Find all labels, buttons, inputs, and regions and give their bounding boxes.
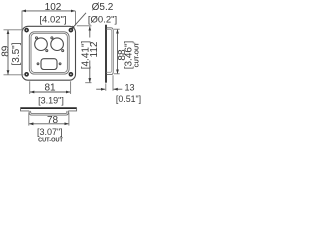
bottom section view flange face bbox=[20, 107, 77, 109]
dim 13 left arrow bbox=[96, 88, 105, 90]
corner hole top-left bbox=[25, 29, 28, 32]
svg-text:[3.46"]: [3.46"] bbox=[123, 40, 134, 69]
corner hole bottom-right bbox=[69, 73, 72, 76]
bottom view dish inner wall bbox=[31, 111, 67, 114]
svg-text:13: 13 bbox=[124, 83, 134, 93]
recessed dish inner edge bbox=[31, 33, 67, 72]
extension line left of 81 bbox=[29, 81, 31, 94]
corner hole bottom-left bbox=[25, 73, 28, 76]
svg-text:CUT-OUT: CUT-OUT bbox=[38, 138, 63, 144]
recessed dish outer edge bbox=[29, 32, 69, 74]
svg-text:Ø5.2: Ø5.2 bbox=[92, 2, 114, 13]
corner hole top-right bbox=[69, 29, 72, 32]
extension line left of 102 bbox=[21, 11, 23, 30]
svg-text:[4.02"]: [4.02"] bbox=[39, 14, 66, 25]
side view flange face bbox=[105, 25, 107, 83]
extension line right of 81 bbox=[70, 81, 72, 94]
extension line top of 88 bbox=[114, 28, 120, 30]
screw hole right connector lower bbox=[62, 50, 64, 52]
screw hole right connector upper bbox=[51, 37, 53, 39]
side view dish inner profile bbox=[107, 29, 112, 72]
rectangular cutout bbox=[41, 59, 57, 70]
extension line left of 78 bbox=[28, 113, 30, 126]
leader line to corner hole bbox=[71, 13, 86, 30]
screw hole left connector lower bbox=[46, 50, 48, 52]
dim line 78 bbox=[29, 123, 69, 125]
screw hole left connector upper bbox=[36, 37, 38, 39]
svg-text:89: 89 bbox=[0, 45, 11, 57]
dim line 112 lower bbox=[89, 61, 91, 83]
svg-text:78: 78 bbox=[47, 115, 59, 126]
dim line 102 bbox=[22, 10, 75, 12]
front view outer plate bbox=[22, 26, 76, 80]
dim line 88 bbox=[117, 29, 119, 74]
svg-text:CUT-OUT: CUT-OUT bbox=[134, 42, 140, 67]
svg-text:[3.07"]: [3.07"] bbox=[37, 127, 63, 137]
connector hole right bbox=[51, 38, 64, 51]
svg-text:[Ø0.2"]: [Ø0.2"] bbox=[88, 14, 117, 25]
extension line for 13 at dish back bbox=[112, 75, 114, 91]
bottom view flange right end bbox=[68, 108, 76, 111]
extension line right of 78 bbox=[68, 113, 70, 126]
svg-text:[3.19"]: [3.19"] bbox=[38, 95, 64, 105]
screw hole rect right bbox=[59, 63, 61, 65]
side view dish outer profile bbox=[107, 28, 114, 75]
bottom view flange left end bbox=[21, 108, 30, 111]
extension line bottom of 89 bbox=[4, 74, 24, 76]
dim line 89 bbox=[7, 30, 9, 75]
extension line bottom of 88 bbox=[114, 73, 120, 75]
screw hole rect left bbox=[37, 63, 39, 65]
svg-text:[3.5"]: [3.5"] bbox=[11, 42, 22, 65]
svg-text:[0.51"]: [0.51"] bbox=[116, 94, 141, 104]
dim line 81 bbox=[30, 91, 70, 93]
extension line for 13 at flange face bbox=[105, 83, 107, 90]
dim line 112 upper bbox=[89, 26, 91, 37]
bottom view dish outer wall bbox=[29, 111, 68, 115]
extension line top of 89 bbox=[4, 29, 24, 31]
extension line right of 102 bbox=[75, 11, 77, 26]
extension line top of 112 bbox=[77, 25, 92, 27]
extension line bottom of 112 bbox=[85, 82, 91, 84]
dim 13 right arrow and tail bbox=[113, 88, 122, 90]
connector hole left bbox=[35, 38, 48, 51]
